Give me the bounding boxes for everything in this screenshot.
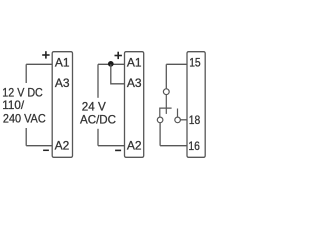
supply variant 2: 24 V AC/DC xyxy=(80,52,144,158)
wire middle vertical upper segment xyxy=(97,64,99,98)
wire A2 lead (middle) xyxy=(98,145,125,147)
wire A2 lead (left) xyxy=(26,145,52,147)
svg-text:A2: A2 xyxy=(127,139,142,153)
wire 15 lead xyxy=(166,63,187,65)
terminal box A1/A3/A2 (middle) xyxy=(125,52,144,158)
svg-text:A3: A3 xyxy=(127,76,142,90)
NO contact circle (to 18) xyxy=(175,117,181,123)
svg-text:15: 15 xyxy=(189,55,201,69)
value label: 24 V AC/DC xyxy=(80,100,116,127)
minus sign (left supply) xyxy=(43,149,49,151)
plus sign (middle supply) xyxy=(115,52,122,59)
terminal box 15/18/16 xyxy=(187,52,205,158)
svg-text:A3: A3 xyxy=(55,76,70,90)
wire NC down vertical xyxy=(159,123,161,146)
changeover relay contact 15/18/16 xyxy=(157,52,205,158)
junction dot on A1 lead xyxy=(108,61,114,67)
svg-text:16: 16 xyxy=(188,139,200,153)
supply variant 1: 12 V DC / 110-240 VAC xyxy=(2,51,72,157)
wire common down to contact xyxy=(165,64,167,89)
svg-text:A1: A1 xyxy=(55,56,70,70)
wire left vertical upper segment xyxy=(25,64,27,83)
minus sign (middle supply) xyxy=(115,149,121,151)
wire A1 lead (left) xyxy=(26,63,52,65)
wire branch junction to A3 xyxy=(111,64,125,84)
plus sign (left supply) xyxy=(42,51,49,58)
NC contact circle (to 16) xyxy=(157,117,163,123)
wire left vertical lower segment xyxy=(25,128,27,146)
svg-text:18: 18 xyxy=(189,113,201,127)
wire A1 lead (middle) xyxy=(98,63,125,65)
NC blade bar xyxy=(160,108,172,117)
value label: 12 V DC 110/240 VAC xyxy=(2,86,46,126)
terminal box A1/A3/A2 (left) xyxy=(52,52,72,158)
svg-text:AC/DC: AC/DC xyxy=(80,112,116,126)
svg-text:240 VAC: 240 VAC xyxy=(3,111,46,125)
wire middle vertical lower segment xyxy=(97,129,99,146)
wire 18 lead xyxy=(180,119,187,121)
svg-text:A1: A1 xyxy=(127,56,142,70)
wire 16 lead xyxy=(160,145,187,147)
svg-text:A2: A2 xyxy=(55,139,70,153)
NO contact tick xyxy=(177,109,179,118)
svg-text:110/: 110/ xyxy=(2,98,24,112)
movable blade line xyxy=(165,95,167,114)
common contact circle xyxy=(163,89,169,95)
